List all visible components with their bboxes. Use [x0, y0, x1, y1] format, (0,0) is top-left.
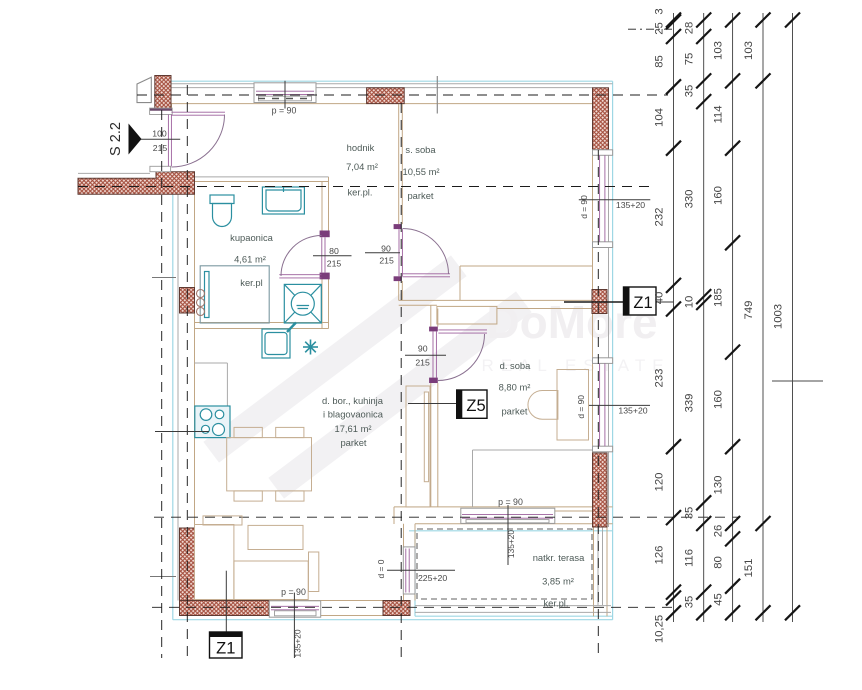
svg-text:d = 90: d = 90	[579, 195, 589, 219]
hatched block right wall lower	[593, 453, 608, 527]
dimension chain D (x=763)	[756, 13, 771, 623]
svg-text:17,61 m²: 17,61 m²	[335, 423, 372, 434]
d.soba bottom wall inner line right of window	[555, 510, 594, 512]
dim text entry door	[152, 129, 167, 153]
kitchen sink	[262, 323, 296, 359]
entry step outline left	[137, 77, 151, 102]
svg-text:3,85 m²: 3,85 m²	[542, 576, 574, 587]
Z5 marker box	[457, 390, 487, 418]
hatched wall block top right corner	[593, 88, 609, 150]
hatched wall block top wall	[367, 88, 405, 104]
svg-text:p = 90: p = 90	[498, 497, 523, 507]
axis dash-dot upper right y=29	[628, 28, 672, 30]
room label kupaonica	[230, 232, 274, 288]
svg-text:80: 80	[713, 556, 725, 569]
hatched wall block entry top	[155, 76, 171, 110]
svg-text:ker.pl.: ker.pl.	[347, 187, 372, 198]
leader window d=90 d.soba 135+20	[589, 404, 650, 406]
hatched block right wall at Z1	[592, 290, 607, 314]
room label d.soba	[499, 360, 532, 417]
south wall of living room faces	[180, 600, 411, 602]
dimension chain A (x=673.5)	[666, 13, 681, 623]
terrace west wall outer line	[414, 524, 416, 547]
svg-text:116: 116	[684, 549, 696, 567]
svg-text:185: 185	[713, 288, 725, 307]
svg-text:d. bor., kuhinja: d. bor., kuhinja	[322, 395, 384, 406]
room label terrace	[533, 552, 585, 609]
svg-text:120: 120	[654, 473, 666, 492]
svg-text:160: 160	[713, 390, 725, 409]
Z1 marker box bottom	[210, 632, 243, 658]
dimension chain E (x=792.5)	[785, 13, 800, 623]
svg-text:Z1: Z1	[216, 640, 235, 658]
window W1 top wall p=90	[254, 83, 316, 103]
bathroom bottom wall	[195, 322, 329, 324]
top wall inner face	[171, 103, 593, 105]
svg-text:p = 90: p = 90	[272, 106, 297, 116]
svg-text:10,55 m²: 10,55 m²	[403, 166, 440, 177]
svg-text:103: 103	[713, 41, 725, 60]
svg-text:80: 80	[329, 246, 339, 256]
svg-text:85: 85	[654, 55, 666, 68]
sofa seat	[234, 561, 308, 600]
svg-text:S 2.2: S 2.2	[108, 122, 124, 156]
axis vertical x=187.3	[186, 85, 188, 660]
dim text s.soba door	[379, 244, 394, 266]
cyan insulation bottom edge	[173, 619, 613, 621]
dim line entry door 100/215	[140, 138, 180, 140]
terrace east wall faces	[593, 527, 595, 616]
svg-text:90: 90	[418, 344, 428, 354]
chain A labels	[654, 8, 666, 643]
bathroom east wall below door	[321, 279, 323, 329]
svg-text:26: 26	[713, 525, 725, 538]
d.soba west wall below door	[430, 383, 432, 507]
dimension chain C (x=732.6)	[725, 13, 740, 623]
chain C labels	[713, 41, 725, 606]
svg-text:10,25: 10,25	[654, 615, 666, 643]
svg-text:104: 104	[654, 108, 666, 127]
wardrobe by d.soba wall	[406, 386, 430, 507]
svg-text:1003: 1003	[773, 304, 785, 329]
s.soba door D3 90/215	[394, 224, 450, 281]
chain D labels	[743, 41, 755, 577]
svg-text:25: 25	[654, 22, 666, 35]
bottom wall living room outer face	[415, 523, 613, 525]
dining chairs	[234, 427, 304, 501]
wall s.soba / d.soba y=300.4	[399, 299, 593, 301]
cyan insulation right edge	[612, 81, 614, 620]
top wall joint mark x=437	[436, 76, 438, 114]
left wall outer gray line	[177, 194, 179, 600]
svg-text:d = 0: d = 0	[376, 559, 386, 578]
dim line bathroom door 80/215	[313, 255, 352, 257]
svg-text:103: 103	[743, 41, 755, 60]
svg-text:35: 35	[684, 507, 696, 520]
svg-text:135+20: 135+20	[293, 629, 303, 658]
terrace south parapet lines	[415, 605, 611, 607]
svg-text:233: 233	[654, 369, 666, 388]
svg-text:135+20: 135+20	[618, 406, 647, 416]
axis vertical right wall x=598.3	[597, 150, 599, 658]
hatched block left wall kitchen	[180, 288, 195, 314]
leader window d=90 s.soba 135+20	[579, 199, 651, 201]
svg-text:10: 10	[684, 296, 696, 309]
axis horizontal top wall y=95	[137, 94, 668, 96]
axis vertical x=401.2	[400, 103, 402, 662]
leader window 225+20	[387, 569, 455, 571]
entry door D1 100/215	[150, 108, 225, 172]
svg-text:parket: parket	[501, 406, 527, 417]
dim line d.soba door 90/215	[405, 354, 446, 356]
leader stove	[155, 431, 209, 433]
sofa left element	[195, 525, 234, 600]
window W6 terrace west 225+20	[403, 547, 415, 594]
svg-text:45: 45	[713, 593, 725, 606]
hatched bottom-left L wall horizontal	[180, 601, 270, 616]
svg-text:225+20: 225+20	[418, 573, 447, 583]
stove	[195, 406, 230, 438]
kitchen counter lines	[195, 362, 228, 364]
d.soba closet outline	[437, 306, 497, 324]
wall second face y=305.3	[399, 304, 437, 306]
s.soba closet outline	[460, 265, 593, 267]
dining table	[227, 438, 312, 491]
svg-text:28: 28	[684, 22, 696, 35]
level mark line right of chain E	[772, 380, 823, 382]
wall section mark y=576	[150, 576, 176, 578]
right wall inner face	[592, 88, 594, 527]
top wall outer face	[171, 83, 613, 85]
svg-text:215: 215	[327, 258, 342, 268]
sofa back cushion	[248, 525, 303, 549]
pillow	[528, 391, 558, 420]
svg-text:Z5: Z5	[466, 397, 485, 415]
window W3 d.soba east d=90	[593, 358, 613, 452]
bottom wall west corner vertical	[393, 507, 395, 524]
bathroom door D2 80/215	[279, 231, 329, 280]
hodnik west wall lower segment	[167, 172, 169, 179]
svg-text:130: 130	[713, 476, 725, 495]
svg-text:330: 330	[684, 190, 696, 209]
leader Z1 bottom	[225, 571, 227, 632]
sofa shelf top	[203, 516, 242, 525]
Z1 marker box right	[624, 287, 657, 315]
terrace roof dashed outline	[417, 529, 592, 599]
window W4 d.soba south p=90	[461, 508, 555, 523]
svg-text:parket: parket	[407, 190, 433, 201]
dimension chain B (x=703.7)	[696, 13, 711, 623]
svg-text:s. soba: s. soba	[405, 144, 436, 155]
dim line s.soba door 90/215	[365, 252, 400, 254]
d.soba lower closet outline	[473, 449, 594, 451]
room label living room	[322, 395, 384, 448]
d.soba west wall above door	[430, 305, 432, 326]
bed	[557, 370, 589, 441]
svg-text:i blagovaonica: i blagovaonica	[323, 409, 384, 420]
d.soba door D4 90/215	[429, 327, 487, 383]
svg-text:114: 114	[713, 105, 725, 123]
wall face y=308.5 right part	[497, 308, 593, 310]
chain B labels	[684, 22, 696, 609]
dim text d.soba door	[415, 344, 430, 368]
svg-text:kupaonica: kupaonica	[230, 232, 274, 243]
axis vertical x=161.7	[161, 110, 163, 658]
toilet	[210, 195, 234, 227]
svg-text:126: 126	[654, 546, 666, 565]
bottom wall living room inner face	[394, 506, 613, 508]
cyan insulation top edge	[171, 80, 613, 82]
svg-text:339: 339	[684, 394, 696, 413]
dim text bathroom door	[327, 246, 342, 268]
svg-text:Z1: Z1	[633, 294, 652, 312]
hatched bottom-left L wall vertical	[180, 528, 195, 601]
top wall second outer line	[171, 87, 593, 89]
svg-text:160: 160	[713, 186, 725, 205]
entry approach line above band	[78, 172, 150, 174]
svg-text:215: 215	[379, 256, 394, 266]
window W5 living room south p=90	[269, 601, 320, 617]
svg-text:3: 3	[654, 8, 666, 14]
svg-text:4,61 m²: 4,61 m²	[234, 254, 266, 265]
svg-text:8,80 m²: 8,80 m²	[499, 382, 531, 393]
svg-text:parket: parket	[340, 437, 366, 448]
axis horizontal bottom wall y=607.3	[152, 606, 676, 608]
bathtub	[200, 266, 269, 323]
room label hodnik	[346, 142, 378, 198]
svg-text:40: 40	[654, 292, 666, 305]
axis horizontal entry band y=186.5	[78, 186, 650, 188]
svg-text:35: 35	[684, 85, 696, 98]
leader Z5	[408, 403, 457, 405]
svg-text:ker.pl.: ker.pl.	[543, 598, 568, 609]
leader p=90 bottom mid window	[507, 505, 509, 565]
svg-text:p = 90: p = 90	[281, 587, 306, 597]
bathroom sink	[262, 187, 304, 214]
wall hooks three circles	[197, 290, 205, 316]
svg-text:135+20: 135+20	[616, 200, 645, 210]
svg-text:749: 749	[743, 301, 755, 320]
partition hodnik/s.soba lower	[398, 281, 400, 300]
svg-text:hodnik: hodnik	[347, 142, 375, 153]
window W2 s.soba east d=90	[593, 150, 613, 248]
svg-text:ker.pl: ker.pl	[240, 277, 262, 288]
svg-text:d. soba: d. soba	[500, 360, 532, 371]
partition hodnik/s.soba upper	[398, 104, 400, 225]
cyan insulation left edge	[172, 194, 174, 619]
svg-text:215: 215	[415, 358, 430, 368]
leader Z1 right	[564, 301, 624, 303]
right wall outer face	[608, 88, 610, 527]
svg-text:natkr. terasa: natkr. terasa	[533, 552, 585, 563]
watermark logo stripes	[203, 255, 531, 498]
hodnik west wall upper segment	[167, 104, 169, 109]
room label s.soba	[403, 144, 440, 201]
washing machine	[284, 284, 321, 323]
cyan terrace top edge	[409, 530, 613, 532]
svg-text:215: 215	[153, 143, 168, 153]
svg-text:100: 100	[152, 129, 167, 139]
hatched bottom wall block mid	[383, 601, 410, 616]
svg-text:35: 35	[684, 596, 696, 609]
svg-text:d = 90: d = 90	[576, 395, 586, 419]
svg-text:75: 75	[684, 53, 696, 66]
cyan terrace inner bottom edge	[415, 615, 613, 617]
svg-text:232: 232	[654, 208, 666, 227]
cyan terrace left edge	[414, 531, 416, 616]
axis horizontal bottom of rooms y=517.2	[154, 516, 740, 518]
section mark S 2.2	[108, 122, 142, 156]
bathroom east wall above door	[321, 182, 323, 232]
snowflake symbol	[303, 340, 318, 355]
wall section mark y=277	[152, 277, 176, 279]
left wall inner face	[194, 194, 196, 600]
svg-text:135+20: 135+20	[506, 530, 516, 559]
svg-text:90: 90	[381, 244, 391, 254]
leader p=90 top window	[284, 81, 286, 109]
chain E label 1003	[773, 304, 785, 329]
leader p=90 bottom left window	[293, 593, 295, 658]
svg-text:7,04 m²: 7,04 m²	[346, 161, 378, 172]
svg-text:151: 151	[743, 559, 755, 578]
bathroom top wall	[195, 176, 329, 178]
hatched entry corner and west band	[78, 172, 195, 195]
sofa armrest	[309, 552, 319, 592]
